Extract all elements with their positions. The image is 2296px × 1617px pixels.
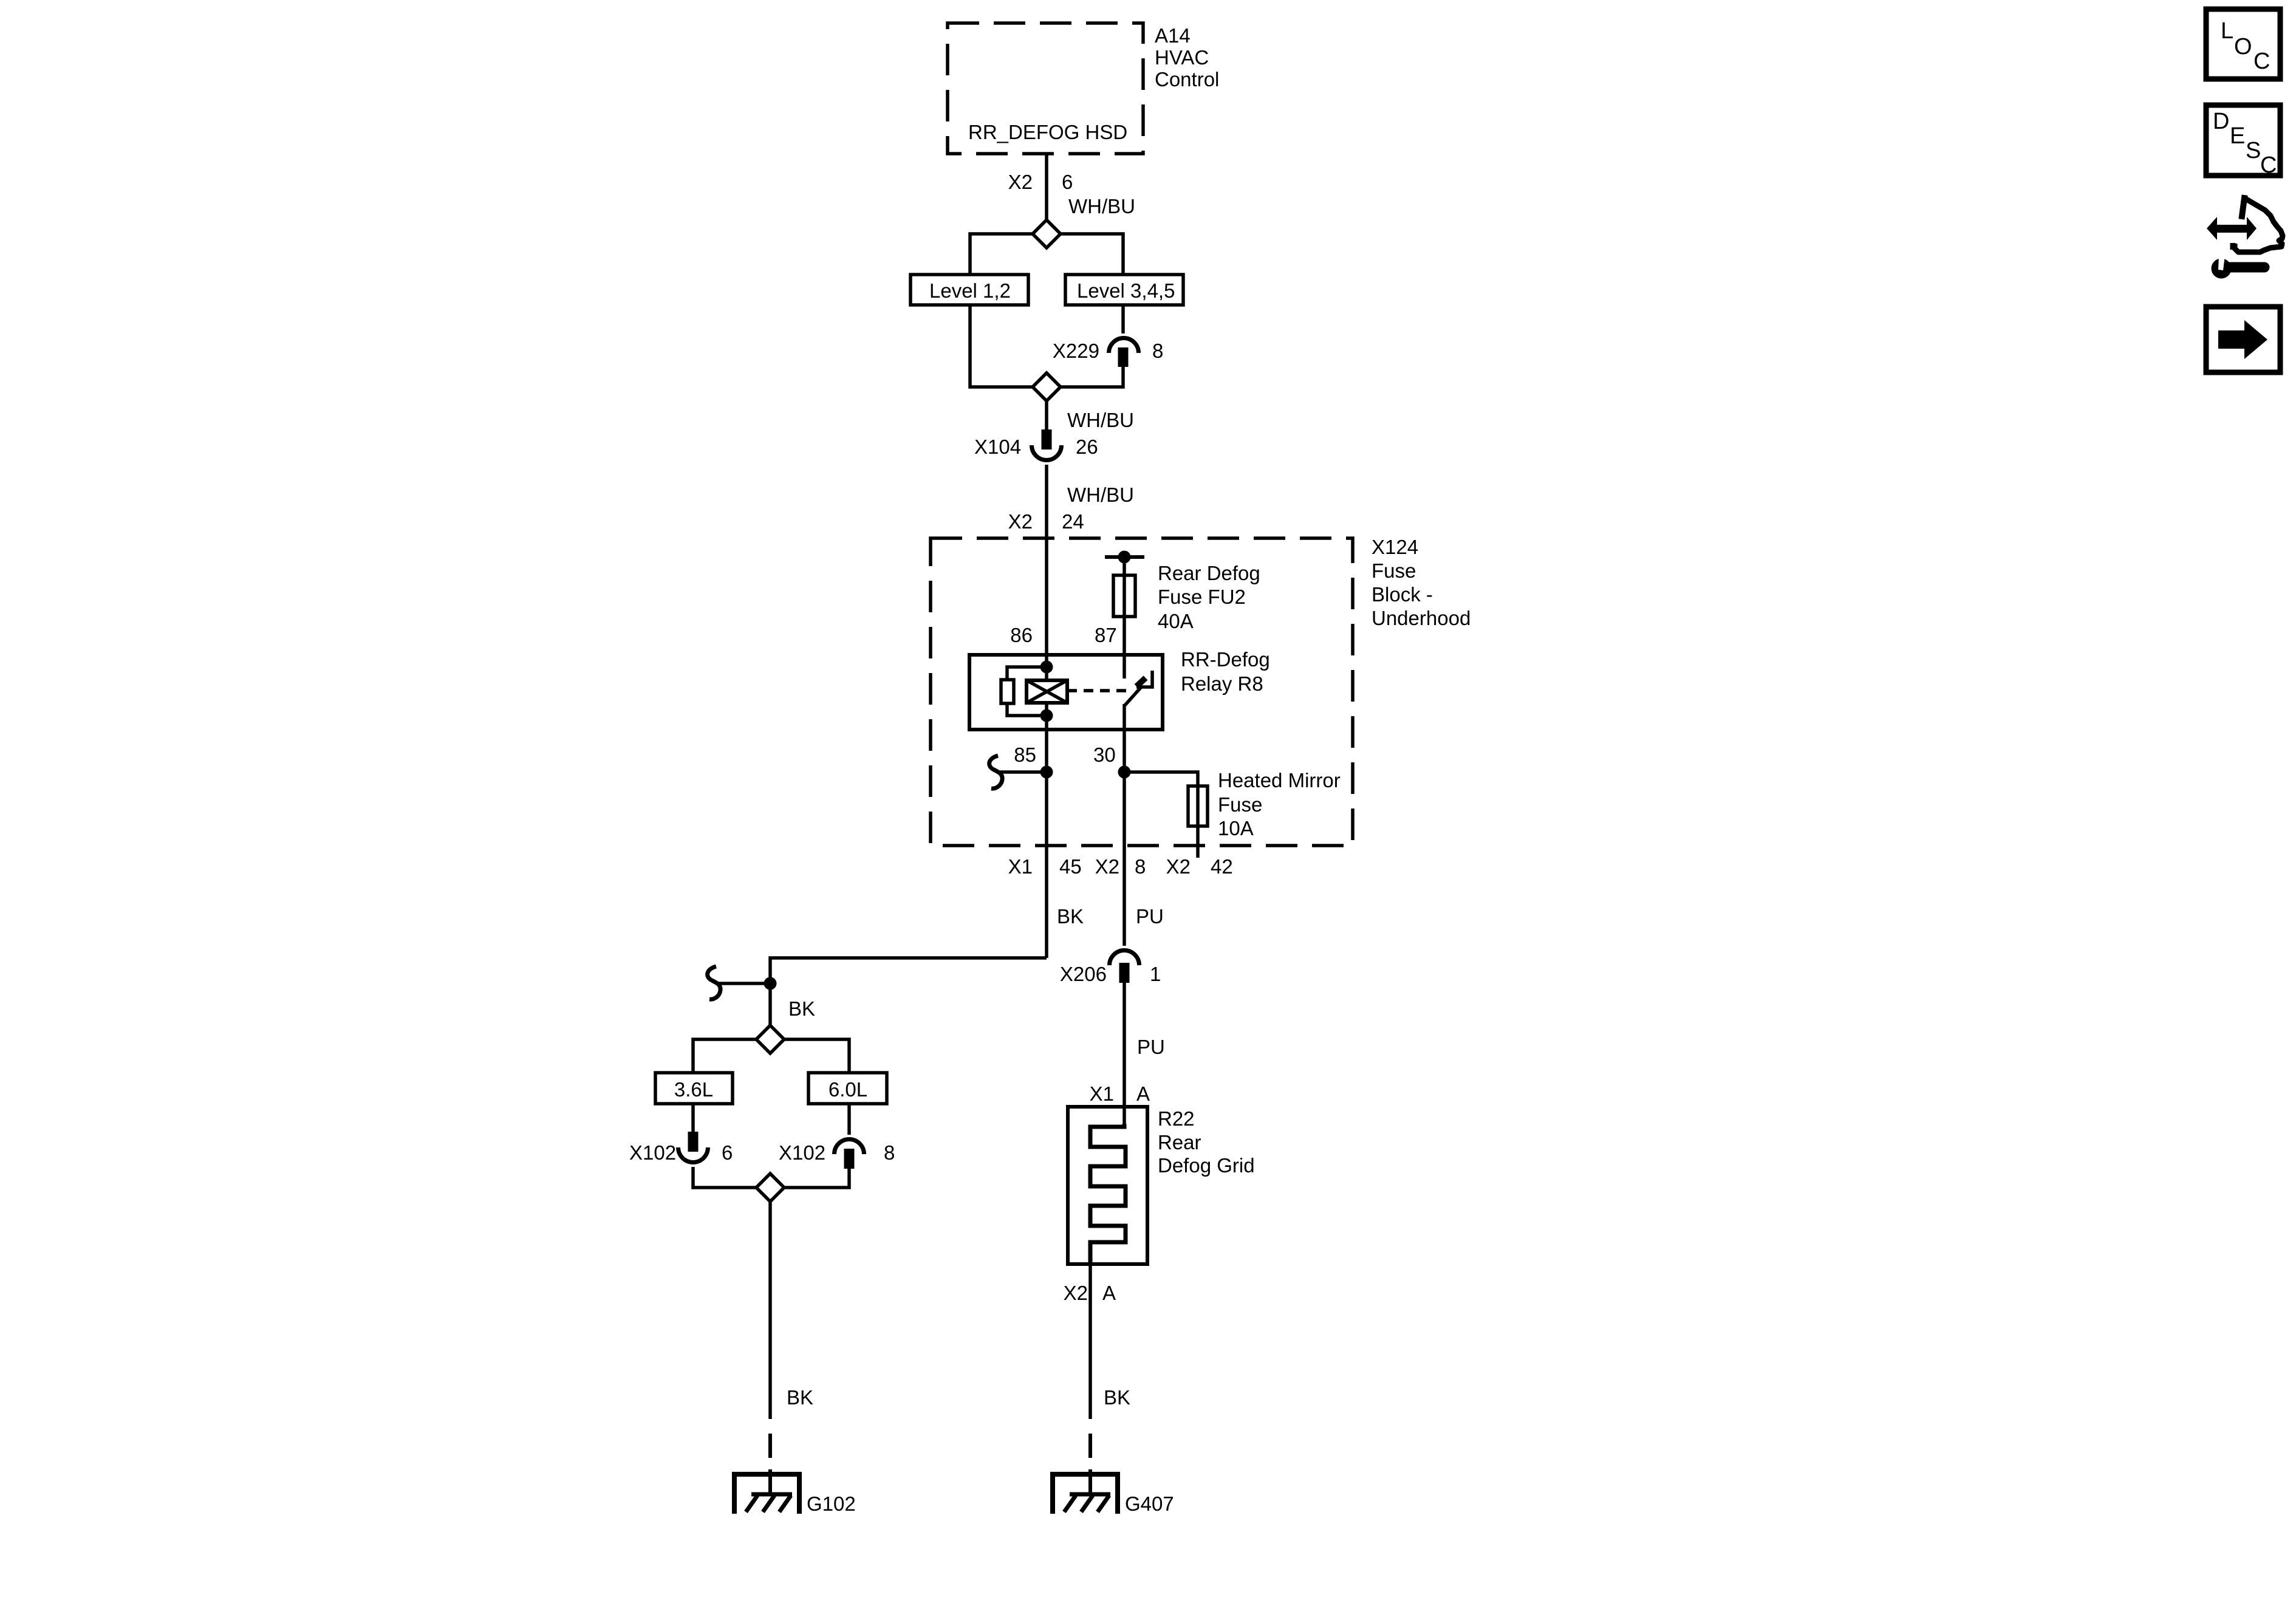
wire left branch to 3.6L — [693, 1039, 756, 1073]
wire 3.6L to connector X102 pin 6 — [691, 1104, 695, 1132]
wire X102-6 to splice S4 — [693, 1167, 756, 1188]
svg-text:Underhood: Underhood — [1372, 607, 1471, 629]
connector X102 male pin 8 — [844, 1149, 855, 1169]
svg-text:85: 85 — [1014, 744, 1036, 766]
wire squiggle to BK junction — [717, 982, 770, 985]
svg-text:BK: BK — [1104, 1386, 1130, 1409]
svg-text:24: 24 — [1062, 510, 1084, 533]
wire squiggle to junction 85 — [999, 770, 1047, 774]
svg-text:30: 30 — [1093, 744, 1116, 766]
svg-text:Level 1,2: Level 1,2 — [929, 279, 1011, 302]
svg-text:X124: X124 — [1372, 536, 1418, 558]
svg-text:X102: X102 — [629, 1141, 676, 1164]
ground G407 — [1053, 1469, 1118, 1514]
svg-text:Relay R8: Relay R8 — [1181, 672, 1263, 695]
svg-text:42: 42 — [1211, 855, 1233, 878]
wire from X229 to splice S2 — [1061, 367, 1123, 387]
wire X102-8 to splice S4 — [784, 1169, 849, 1188]
svg-text:1: 1 — [1150, 963, 1161, 985]
relay switch contact nub — [1136, 678, 1146, 686]
fuse FU2 40A — [1113, 575, 1135, 617]
icon next page arrow box — [2206, 307, 2280, 372]
svg-text:6.0L: 6.0L — [829, 1078, 867, 1101]
wire left branch to Level 1,2 — [970, 234, 1033, 275]
junction at relay coil top — [1040, 661, 1053, 674]
relay switch movable blade — [1125, 688, 1141, 705]
relay suppression resistor — [1001, 680, 1014, 703]
wire from Level 3,4,5 to connector X229 — [1121, 305, 1125, 333]
icon LOC box — [2206, 9, 2280, 79]
connector X104 female half — [1032, 445, 1062, 460]
wire right branch to Level 3,4,5 — [1061, 234, 1123, 275]
svg-text:8: 8 — [884, 1141, 895, 1164]
icon DESC box — [2206, 105, 2280, 178]
wire from A14 pin 6 to splice — [1045, 154, 1048, 220]
dashed wire to G407 — [1088, 1434, 1092, 1458]
svg-text:87: 87 — [1095, 624, 1117, 646]
fuse block X124 dashed box — [931, 538, 1353, 846]
connector X104 male pin 26 — [1042, 429, 1052, 450]
svg-text:10A: 10A — [1218, 817, 1254, 839]
wire from X104 to relay coil pin 86 — [1045, 465, 1048, 655]
svg-text:Defog Grid: Defog Grid — [1158, 1154, 1255, 1177]
defogger grid R22 element — [1090, 1124, 1126, 1264]
junction at pin 30 — [1118, 766, 1131, 779]
svg-text:Rear: Rear — [1158, 1131, 1201, 1154]
junction at relay coil bottom — [1040, 709, 1053, 722]
svg-text:G102: G102 — [807, 1492, 856, 1515]
box Level 1,2 — [911, 275, 1028, 305]
connector X229 female half — [1109, 338, 1139, 354]
svg-text:R22: R22 — [1158, 1107, 1195, 1130]
relay coil feed wire — [1045, 655, 1048, 730]
svg-text:Heated Mirror: Heated Mirror — [1218, 769, 1341, 791]
relay switch fixed contact wire from pin 87 — [1122, 655, 1126, 679]
connector X206 female half — [1110, 950, 1139, 965]
icon vehicle data (car + arrow + wrench) — [2207, 198, 2283, 279]
wire 6.0L to connector X102 pin 8 — [847, 1104, 851, 1135]
svg-text:A: A — [1136, 1082, 1150, 1105]
svg-text:6: 6 — [1062, 171, 1073, 193]
svg-text:Fuse: Fuse — [1372, 559, 1416, 582]
svg-text:PU: PU — [1136, 905, 1164, 928]
splice diamond S3 — [756, 1025, 784, 1053]
svg-text:X1: X1 — [1090, 1082, 1114, 1105]
svg-text:6: 6 — [722, 1141, 733, 1164]
box 3.6L — [655, 1073, 733, 1104]
svg-text:3.6L: 3.6L — [674, 1078, 713, 1101]
svg-text:G407: G407 — [1125, 1492, 1174, 1515]
wire junction to splice S3 — [768, 983, 772, 1026]
svg-text:Fuse: Fuse — [1218, 793, 1262, 816]
wire pin 85 down through X1-45 — [1045, 730, 1048, 958]
svg-text:Fuse FU2: Fuse FU2 — [1158, 586, 1246, 608]
BK wire from X1-45 to left branch — [770, 958, 1047, 983]
wire junction 30 to heated mirror fuse — [1124, 772, 1198, 858]
svg-text:X229: X229 — [1053, 340, 1099, 362]
relay suppression resistor branch wire — [1007, 667, 1047, 716]
svg-text:WH/BU: WH/BU — [1068, 195, 1135, 217]
relay actuator dashed link — [1067, 689, 1127, 692]
relay switch wire to pin 30 — [1122, 704, 1126, 730]
svg-text:WH/BU: WH/BU — [1067, 484, 1134, 506]
svg-text:Level 3,4,5: Level 3,4,5 — [1077, 279, 1175, 302]
svg-text:WH/BU: WH/BU — [1067, 409, 1134, 431]
svg-text:BK: BK — [788, 997, 815, 1020]
svg-text:D: D — [2213, 109, 2229, 134]
defogger grid R22 box — [1068, 1107, 1147, 1264]
svg-text:PU: PU — [1137, 1036, 1165, 1058]
svg-text:A14: A14 — [1155, 24, 1191, 47]
svg-text:40A: 40A — [1158, 610, 1194, 632]
svg-text:BK: BK — [1057, 905, 1084, 928]
junction BK branch — [764, 977, 777, 990]
svg-text:BK: BK — [787, 1386, 813, 1409]
svg-text:O: O — [2234, 34, 2252, 60]
svg-text:Block -: Block - — [1372, 583, 1433, 606]
svg-text:26: 26 — [1076, 436, 1098, 458]
relay R8 box — [969, 655, 1163, 730]
wire pin 30 down to connector X206 — [1122, 730, 1126, 946]
svg-text:8: 8 — [1152, 340, 1163, 362]
box 6.0L — [808, 1073, 887, 1104]
svg-text:45: 45 — [1059, 855, 1082, 878]
svg-text:L: L — [2221, 18, 2233, 44]
svg-text:X104: X104 — [974, 436, 1021, 458]
svg-text:X1: X1 — [1008, 855, 1033, 878]
wire from S2 to connector X104 — [1045, 401, 1048, 429]
svg-text:X2: X2 — [1064, 1282, 1088, 1304]
connector X206 male pin 1 — [1119, 963, 1130, 983]
svg-text:X2: X2 — [1008, 171, 1033, 193]
connector X102 female half (left) — [678, 1147, 708, 1162]
HVAC control module A14 dashed box — [948, 23, 1143, 154]
splice diamond S1 — [1033, 220, 1061, 248]
svg-text:C: C — [2253, 49, 2270, 74]
BK wire down to G102 — [768, 1202, 772, 1419]
dashed wire to G102 — [768, 1434, 772, 1458]
junction at pin 85 — [1040, 766, 1053, 779]
svg-text:C: C — [2260, 152, 2277, 178]
svg-text:X102: X102 — [779, 1141, 825, 1164]
relay switch fixed contact hook — [1136, 671, 1152, 687]
svg-text:RR-Defog: RR-Defog — [1181, 648, 1270, 671]
connector X102 male pin 6 — [688, 1132, 699, 1152]
svg-text:Control: Control — [1155, 68, 1219, 91]
svg-text:X2: X2 — [1008, 510, 1033, 533]
bus stub at fuse FU2 — [1105, 555, 1144, 559]
connector X229 male pin 8 — [1118, 347, 1129, 367]
svg-text:X2: X2 — [1095, 855, 1119, 878]
svg-text:HVAC: HVAC — [1155, 46, 1209, 69]
svg-text:86: 86 — [1010, 624, 1033, 646]
junction at fuse FU2 — [1118, 551, 1131, 564]
PU wire X206 to R22 — [1122, 983, 1126, 1127]
svg-text:X2: X2 — [1166, 855, 1191, 878]
BK wire R22 to G407 — [1088, 1264, 1092, 1419]
svg-text:Rear Defog: Rear Defog — [1158, 562, 1260, 584]
wire right branch to 6.0L — [784, 1039, 849, 1073]
ground G102 — [734, 1469, 799, 1514]
relay coil — [1027, 680, 1067, 703]
continuation squiggle at BK branch — [708, 966, 720, 999]
svg-text:X206: X206 — [1060, 963, 1107, 985]
wire from Level 1,2 down to splice S2 — [970, 305, 1033, 387]
box Level 3,4,5 — [1065, 275, 1183, 305]
connector X102 female half (right) — [835, 1139, 864, 1154]
splice diamond S2 — [1033, 373, 1061, 401]
splice diamond S4 — [756, 1174, 784, 1202]
wire from junction through fuse FU2 to relay pin 87 — [1122, 557, 1126, 655]
svg-text:A: A — [1102, 1282, 1116, 1304]
svg-text:E: E — [2230, 123, 2245, 149]
svg-text:RR_DEFOG HSD: RR_DEFOG HSD — [968, 121, 1127, 143]
continuation squiggle at pin 85 — [989, 756, 1002, 788]
svg-text:8: 8 — [1135, 855, 1146, 878]
heated mirror fuse 10A — [1188, 786, 1208, 826]
svg-text:S: S — [2246, 138, 2261, 163]
